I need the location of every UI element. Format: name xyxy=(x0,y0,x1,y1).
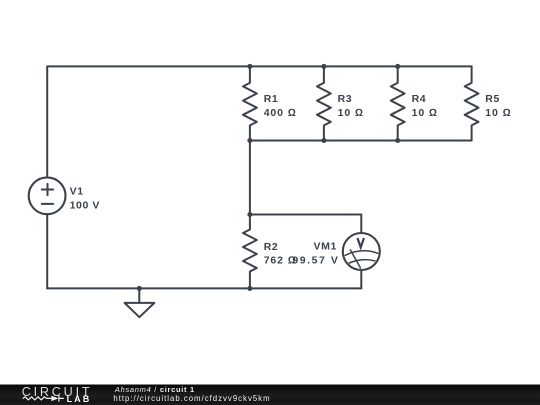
voltage source V1 circle xyxy=(29,177,66,214)
ground symbol xyxy=(125,288,155,317)
node dot ground xyxy=(137,286,142,291)
wire R2 top to VM1 xyxy=(250,215,361,234)
svg-text:R1: R1 xyxy=(264,93,279,105)
V letter inside voltmeter xyxy=(357,238,364,247)
svg-text:10 Ω: 10 Ω xyxy=(412,107,438,119)
V1 minus sign xyxy=(42,203,53,205)
node dot R3 bottom xyxy=(321,138,326,143)
svg-text:10 Ω: 10 Ω xyxy=(338,107,364,119)
svg-text:100 V: 100 V xyxy=(70,199,100,211)
node dot R2 top xyxy=(247,212,252,217)
VM1 meter lower arc xyxy=(349,260,375,263)
wire R1 bottom to R2 top xyxy=(249,141,251,215)
footer black bar xyxy=(0,385,540,405)
svg-text:VM1: VM1 xyxy=(314,241,337,253)
voltmeter VM1 circle xyxy=(343,233,380,270)
svg-text:R2: R2 xyxy=(264,241,279,253)
svg-text:400 Ω: 400 Ω xyxy=(264,107,297,119)
node dot R3 top xyxy=(321,64,326,69)
svg-text:10 Ω: 10 Ω xyxy=(485,107,511,119)
VM1 needle xyxy=(350,250,360,268)
wire V1 bottom xyxy=(46,214,48,288)
wire VM1 bottom xyxy=(360,270,362,288)
resistor R1 xyxy=(243,66,257,140)
node dot R1 bottom xyxy=(247,138,252,143)
resistor R3 xyxy=(317,66,331,140)
wire bottom rail xyxy=(47,287,361,289)
wire top rail xyxy=(47,66,471,177)
resistor R5 xyxy=(465,66,479,140)
CircuitLab logo diode bar and wire xyxy=(59,396,64,402)
svg-text:R3: R3 xyxy=(338,93,353,105)
CircuitLab logo diode xyxy=(51,396,58,401)
svg-text:LAB: LAB xyxy=(67,394,92,404)
wire mid rail xyxy=(250,140,472,142)
svg-text:V1: V1 xyxy=(70,185,84,197)
node dot R4 top xyxy=(395,64,400,69)
V1 plus sign xyxy=(42,184,53,195)
node dot R1 top xyxy=(247,64,252,69)
svg-text:R5: R5 xyxy=(485,93,500,105)
svg-text:R4: R4 xyxy=(412,93,427,105)
svg-text:Ahsanm4 / circuit 1: Ahsanm4 / circuit 1 xyxy=(114,385,195,394)
resistor R4 xyxy=(391,66,405,140)
resistor R2 xyxy=(243,215,257,289)
node dot R4 bottom xyxy=(395,138,400,143)
svg-text:99.57 V: 99.57 V xyxy=(292,255,339,267)
node dot R2 bottom xyxy=(247,286,252,291)
CircuitLab logo resistor zigzag xyxy=(23,397,51,400)
svg-text:http://circuitlab.com/cfdzvv9c: http://circuitlab.com/cfdzvv9ckv5km xyxy=(113,394,270,403)
VM1 meter upper arc xyxy=(345,251,378,256)
